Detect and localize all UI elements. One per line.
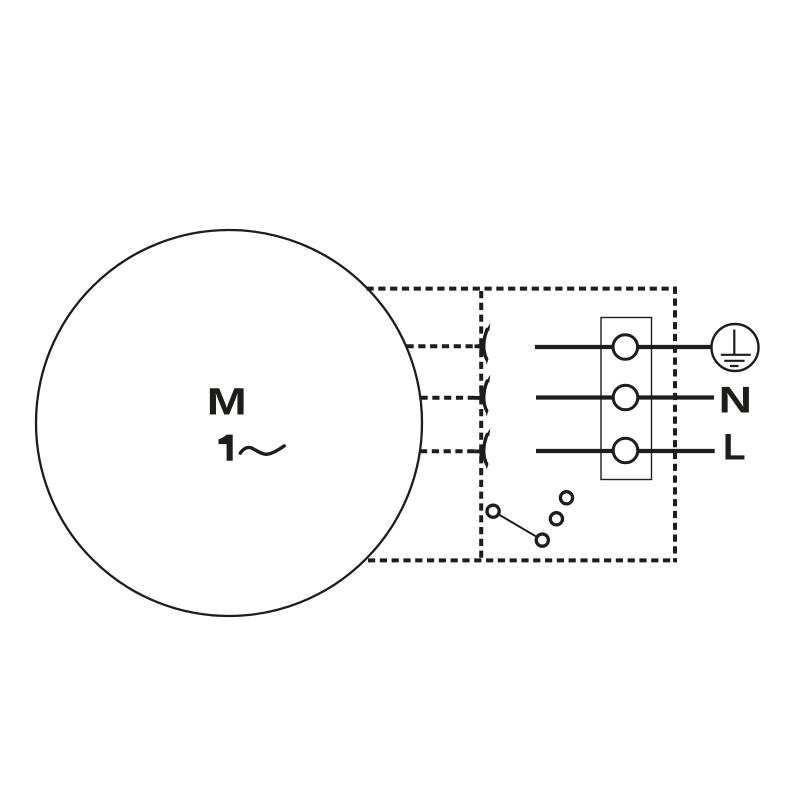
protective earth symbol circle bbox=[712, 324, 759, 371]
plug-socket connector 3 bbox=[475, 428, 491, 470]
dashed enclosure top edge bbox=[367, 287, 677, 291]
dashed enclosure bottom edge bbox=[368, 558, 677, 562]
motor label ~ (sine wave) bbox=[240, 446, 284, 454]
switch position contact 2 bbox=[550, 513, 562, 525]
earth symbol bar 1 bbox=[721, 354, 751, 356]
switch position contact 1 bbox=[536, 534, 548, 546]
switch arm bbox=[500, 515, 536, 536]
earth symbol bar 3 bbox=[730, 365, 739, 367]
dashed enclosure right edge bbox=[673, 287, 677, 563]
svg-text:N: N bbox=[719, 379, 752, 421]
terminal block outline bbox=[601, 318, 652, 480]
terminal 1 (earth) bbox=[613, 335, 638, 360]
svg-text:L: L bbox=[723, 426, 746, 467]
terminal 2 (N) bbox=[613, 385, 638, 410]
svg-text:M: M bbox=[207, 381, 247, 423]
switch fixed contact bbox=[487, 505, 499, 517]
motor label 1 bbox=[219, 435, 233, 461]
switch position contact 3 bbox=[560, 492, 572, 504]
earth symbol bar 2 bbox=[724, 360, 744, 362]
dashed wire motor to connector 1 bbox=[407, 344, 481, 348]
plug-socket connector 2 bbox=[475, 375, 491, 417]
motor M1 circle bbox=[36, 230, 422, 616]
dashed inner partition line bbox=[479, 289, 483, 561]
dashed wire motor to connector 3 bbox=[420, 449, 480, 453]
solid wire connector 2 to N bbox=[536, 395, 714, 399]
terminal 3 (L) bbox=[613, 438, 638, 463]
earth symbol vertical stroke bbox=[733, 330, 735, 356]
dashed wire motor to connector 2 bbox=[421, 396, 481, 400]
plug-socket connector 1 bbox=[475, 323, 491, 365]
solid wire connector 3 to L bbox=[536, 449, 715, 453]
solid wire connector 1 to earth terminal bbox=[535, 345, 712, 349]
